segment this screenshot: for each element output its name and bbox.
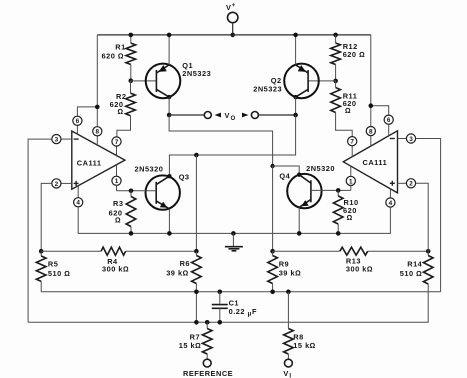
svg-text:620 Ω: 620 Ω [102,51,125,60]
wire Q3 base from pin 1 [117,190,157,192]
pin 6 (left op-amp) [73,116,82,134]
wire Q2 collector down to VO line [293,95,297,115]
wire pin3 left down to lower line [28,139,52,322]
V+ terminal [226,3,238,37]
node Q4 emitter junction [297,231,302,236]
node R10 top [336,188,341,193]
resistor R1 [102,33,136,81]
svg-text:3: 3 [55,137,59,144]
svg-text:1: 1 [349,178,353,185]
node R3 top [129,189,134,194]
node lower-line / R6 junction [194,320,199,325]
svg-text:2N5320: 2N5320 [135,165,164,174]
node R14 top [426,249,431,254]
node R9 bottom [270,290,275,295]
resistor R13 [273,247,429,273]
node R6 riser junction [194,153,199,252]
svg-text:Ω: Ω [345,106,351,115]
pin 6 (right op-amp) [384,115,393,136]
wire Q1 collector down to VO line [167,95,171,115]
svg-text:8: 8 [369,129,373,136]
pin 1 (right op-amp) [346,166,355,190]
wire bottom bus [41,291,440,293]
svg-text:+: + [232,3,236,9]
svg-text:620 Ω: 620 Ω [343,50,366,59]
svg-text:510 Ω: 510 Ω [400,269,423,278]
svg-text:8: 8 [96,129,100,136]
pin 2 (right op-amp) [398,179,416,188]
node R6 top [194,249,199,254]
svg-text:4: 4 [76,200,80,207]
wire emitter line (pin4 to pin4) [78,207,390,234]
node Q3 emitter junction [167,231,172,236]
svg-text:39 kΩ: 39 kΩ [279,269,302,278]
node R9 top [270,249,275,254]
wire Q1 emitter to V+ bus [167,33,172,65]
svg-text:15 kΩ: 15 kΩ [179,341,202,350]
wire Q2 collector cross-coupling to Q3 [169,115,295,176]
terminal VI [283,359,292,378]
svg-text:300 kΩ: 300 kΩ [102,265,129,274]
svg-text:2: 2 [409,181,413,188]
resistor R7 [179,322,212,359]
resistor R10 [333,190,358,233]
svg-text:3: 3 [409,136,413,143]
resistor R4 [41,247,196,273]
transistor Q2 2N5323 [253,64,319,99]
transistor Q4 2N5320 [279,164,335,208]
svg-text:6: 6 [76,118,80,125]
svg-text:Q4: Q4 [279,172,290,181]
node Q4 collector [297,173,301,177]
wire Q3 emitter down [168,209,170,234]
svg-text:39 kΩ: 39 kΩ [166,269,189,278]
svg-text:R5: R5 [48,259,58,268]
node R5 top [39,249,44,254]
svg-text:V: V [226,3,231,12]
pin 8 (left op-amp) [93,127,102,145]
node R3 bottom [129,231,134,236]
svg-text:O: O [231,116,236,122]
wire pin2 left down to R5 [41,183,52,251]
svg-text:Q3: Q3 [179,173,190,182]
wire left rail to pins 6,8 [77,35,99,127]
svg-text:R14: R14 [407,259,422,268]
resistor R11 [331,81,358,137]
op-amp U2 CA111 right [343,131,397,193]
node C1 top [218,290,223,295]
pin 7 (right op-amp) [348,137,357,157]
op-amp U1 CA111 left [72,131,125,189]
svg-text:2N5323: 2N5323 [182,69,211,78]
wire pin2 right down to R14 [416,183,429,251]
pin 3 (right op-amp) [398,134,416,143]
resistor R12 [331,33,365,81]
resistor R6 [166,251,201,322]
svg-text:2N5323: 2N5323 [253,84,282,93]
pin 2 (left op-amp) [52,179,72,188]
node Q3 collector [167,174,171,178]
pin 8 (right op-amp) [366,127,375,147]
wire lower line [28,292,428,323]
svg-text:V: V [283,369,288,378]
svg-text:V: V [225,111,230,120]
pin 1 (left op-amp) [112,165,121,191]
resistor R8 [284,292,316,359]
node R10 bottom [336,231,341,236]
svg-text:CA111: CA111 [363,158,388,167]
svg-text:0.22 μF: 0.22 μF [229,307,257,318]
node coupling junction to Q4 collector [270,164,299,175]
wire Q4 base from pin 1 [311,189,351,191]
terminal REFERENCE [183,359,233,378]
svg-text:R3: R3 [113,199,123,208]
pin 3 (left op-amp) [52,135,72,144]
node VO output line [167,111,298,122]
node R12/R11 junction to Q2 base [308,79,338,84]
svg-text:R9: R9 [279,259,289,268]
pin 4 (right op-amp) [386,189,395,207]
resistor R14 [400,251,433,292]
resistor R3 [109,191,136,234]
svg-text:510 Ω: 510 Ω [48,269,71,278]
resistor R2 [110,81,136,137]
resistor R5 [36,251,70,292]
svg-text:REFERENCE: REFERENCE [183,369,233,378]
pin 7 (left op-amp) [112,137,121,156]
wire Q4 emitter down [298,207,300,233]
transistor Q1 2N5323 [146,61,211,98]
svg-text:1: 1 [115,178,119,185]
svg-text:CA111: CA111 [77,158,102,167]
ground [225,231,243,251]
node R6 bottom bus junction [194,290,199,295]
wire Q2 emitter to V+ bus [293,33,298,65]
node R8 top [286,290,291,295]
node C1 bottom [218,320,223,325]
svg-text:Ω: Ω [115,215,121,224]
resistor R9 [268,251,301,292]
wire top V+ bus [97,34,371,36]
wire Q1 collector cross-coupling to Q4 [169,115,273,166]
svg-text:Ω: Ω [118,107,124,116]
node R1/R2 junction to Q1 base [129,78,157,83]
capacitor C1 0.22uF [212,292,257,323]
svg-text:R6: R6 [180,259,190,268]
wire right rail to pins 6,8 [369,35,389,127]
svg-text:7: 7 [350,139,354,146]
svg-text:2: 2 [55,181,59,188]
wire coupling node down to R9 [272,166,274,251]
svg-text:15 kΩ: 15 kΩ [293,341,316,350]
svg-text:R1: R1 [115,42,125,51]
svg-text:Ω: Ω [347,213,353,222]
svg-text:300 kΩ: 300 kΩ [346,264,373,273]
svg-text:2N5320: 2N5320 [306,164,335,173]
transistor Q3 2N5320 [135,165,190,210]
pin 4 (left op-amp) [74,186,83,207]
svg-text:4: 4 [389,200,393,207]
svg-text:6: 6 [387,117,391,124]
node R7 top [205,320,210,325]
svg-text:7: 7 [115,139,119,146]
wire pin3 right to right rail down to bus [416,139,441,292]
